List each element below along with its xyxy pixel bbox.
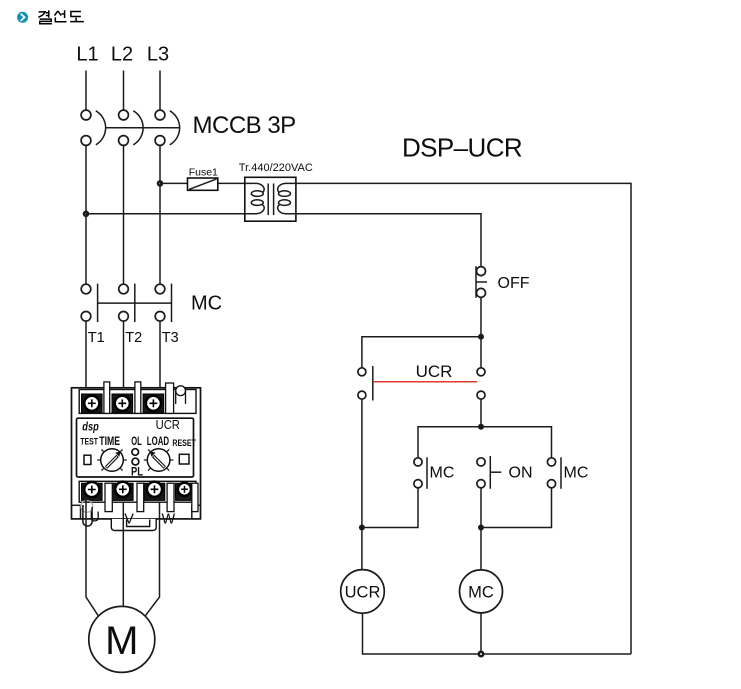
wire UCR coil to bottom rail — [363, 613, 632, 654]
relay UCR body shell — [72, 388, 201, 519]
breaker tie bar — [106, 127, 180, 129]
coil UCR — [341, 570, 385, 614]
node fuse tap on L3 — [157, 180, 164, 187]
wire transformer to right rail — [296, 183, 631, 654]
contact UCR auxiliary (right column on main line) — [477, 337, 485, 399]
relay hanger hook — [176, 386, 186, 404]
wire W relay to motor — [145, 502, 159, 616]
contactor tie bar — [98, 302, 172, 304]
label UCR (contact) — [416, 362, 453, 381]
label LOAD — [147, 436, 169, 448]
label Tr.440/220VAC — [239, 162, 313, 174]
node UCR coil top — [359, 525, 365, 531]
relay top terminal strip — [79, 390, 196, 414]
wire T3 contactor to relay — [159, 321, 161, 394]
title icon — [17, 12, 28, 23]
label W — [162, 512, 176, 528]
wire branch row — [418, 427, 552, 458]
terminal screw bottom 3 — [147, 482, 162, 497]
svg-text:TIME: TIME — [99, 436, 120, 448]
svg-text:T1: T1 — [88, 330, 105, 346]
svg-text:MC: MC — [430, 465, 455, 482]
wire tap to fuse — [160, 182, 188, 184]
svg-text:M: M — [105, 619, 138, 663]
wire fuse to transformer — [218, 182, 245, 184]
terminal screw bottom 1 — [84, 482, 99, 497]
svg-text:LOAD: LOAD — [147, 436, 169, 448]
wire ON down — [480, 488, 482, 528]
wire phase3 breaker to contactor — [159, 145, 161, 284]
label L1 — [76, 44, 98, 66]
svg-text:MC: MC — [564, 465, 589, 482]
relay top separator tabs — [104, 382, 174, 414]
terminal screw top 1 — [84, 396, 99, 411]
button RESET — [179, 454, 189, 464]
breaker MCCB pole 1 — [81, 110, 106, 145]
wire L2 drop to breaker — [123, 71, 125, 111]
svg-text:UCR: UCR — [416, 362, 453, 381]
svg-text:T3: T3 — [162, 330, 179, 346]
node MC coil top — [478, 525, 484, 531]
wire phase1 breaker to contactor — [85, 145, 87, 284]
label MCCB 3P — [193, 112, 296, 139]
svg-text:OL: OL — [131, 436, 142, 448]
indicator OL — [132, 449, 139, 456]
svg-text:W: W — [162, 512, 176, 528]
relay bottom mounting tab — [111, 519, 156, 531]
wire T2 contactor to relay — [123, 321, 125, 394]
terminal screw top 2 — [115, 396, 130, 411]
wire transformer to OFF button — [296, 214, 481, 267]
relay bottom terminal strip — [79, 481, 196, 502]
logo dsp — [82, 422, 99, 434]
wire branch to UCR contact left — [362, 337, 481, 368]
terminal screw bottom 2 — [115, 482, 130, 497]
fuse Fuse1 — [188, 178, 218, 190]
wire UCR branch down — [361, 399, 363, 569]
wire right MC down and across — [481, 488, 552, 528]
node branch UCR contact — [478, 334, 484, 340]
svg-text:UCR: UCR — [156, 417, 180, 432]
motor M — [89, 606, 155, 672]
svg-text:MC: MC — [191, 293, 222, 315]
svg-text:MC: MC — [468, 583, 494, 601]
svg-text:V: V — [124, 512, 134, 528]
label UCR (faceplate) — [156, 417, 180, 432]
svg-text:U: U — [90, 510, 100, 526]
label TIME — [99, 436, 120, 448]
relay CT loop — [81, 501, 93, 527]
wire U relay to motor — [86, 500, 98, 616]
label T3 — [162, 330, 179, 346]
contact MC auxiliary (left) — [414, 457, 427, 489]
pushbutton ON (NO) — [477, 456, 501, 489]
label L2 — [111, 44, 133, 66]
red linkage line — [373, 381, 477, 383]
contactor MC pole 3 — [155, 284, 171, 323]
label DSP-UCR — [402, 132, 522, 162]
svg-text:dsp: dsp — [82, 422, 99, 434]
relay face plate — [77, 418, 194, 477]
transformer Tr.440/220VAC — [245, 177, 296, 221]
wire UCR contact to MC/ON node — [480, 399, 482, 427]
svg-text:L1: L1 — [76, 44, 98, 66]
svg-text:TEST: TEST — [80, 436, 98, 446]
wire OFF to node — [480, 297, 482, 336]
label OFF — [498, 275, 530, 292]
label MC (right contact) — [564, 465, 589, 482]
wire L1 drop to breaker — [85, 71, 87, 111]
svg-text:Tr.440/220VAC: Tr.440/220VAC — [239, 162, 313, 174]
wire tap to transformer lower — [86, 213, 245, 215]
breaker MCCB pole 3 — [155, 110, 180, 145]
breaker MCCB pole 2 — [119, 110, 144, 145]
wire left MC down and across — [362, 488, 418, 528]
terminal screw bottom 4 — [178, 483, 191, 496]
knob TIME — [97, 449, 127, 472]
wire V relay to motor — [122, 502, 124, 607]
label MC (contactor) — [191, 293, 222, 315]
contactor MC pole 1 — [81, 284, 97, 323]
svg-text:T2: T2 — [125, 330, 142, 346]
svg-text:RESET: RESET — [172, 438, 196, 448]
wire T1 contactor to relay — [85, 321, 87, 394]
node bottom rail junction — [478, 651, 485, 658]
label PL — [131, 467, 143, 479]
label ON — [509, 465, 533, 482]
relay bottom separator tabs — [105, 483, 198, 511]
label MC (left contact) — [430, 465, 455, 482]
svg-text:L2: L2 — [111, 44, 133, 66]
label OL — [131, 436, 142, 448]
label T1 — [88, 330, 105, 346]
svg-text:OFF: OFF — [498, 275, 530, 292]
svg-text:ON: ON — [509, 465, 533, 482]
wire MC coil to bottom rail — [480, 613, 482, 654]
contact MC auxiliary (right) — [547, 457, 561, 489]
wire L3 drop to breaker — [159, 71, 161, 111]
pushbutton OFF (NC) — [476, 266, 487, 298]
node transformer tap on L1 — [83, 211, 90, 218]
label U — [90, 510, 100, 526]
svg-text:PL: PL — [131, 467, 143, 479]
label TEST — [80, 436, 98, 446]
svg-text:MCCB 3P: MCCB 3P — [193, 112, 296, 139]
svg-text:Fuse1: Fuse1 — [189, 167, 218, 179]
label V — [124, 512, 134, 528]
svg-text:L3: L3 — [147, 44, 169, 66]
node MC/ON branch — [478, 424, 484, 430]
coil MC — [460, 528, 503, 613]
contactor MC pole 2 — [119, 284, 135, 323]
svg-text:DSP–UCR: DSP–UCR — [402, 132, 522, 162]
title text 결선도 (drawn strokes) — [38, 10, 84, 23]
label L3 — [147, 44, 169, 66]
svg-text:UCR: UCR — [345, 583, 381, 601]
contact UCR auxiliary (left column) — [358, 366, 373, 401]
wire phase2 breaker to contactor — [123, 145, 125, 284]
label RESET — [172, 438, 196, 448]
label T2 — [125, 330, 142, 346]
terminal screw top 3 — [146, 396, 161, 411]
indicator PL — [132, 458, 139, 465]
label Fuse1 — [189, 167, 218, 179]
button TEST — [84, 455, 91, 464]
knob LOAD — [144, 449, 174, 472]
